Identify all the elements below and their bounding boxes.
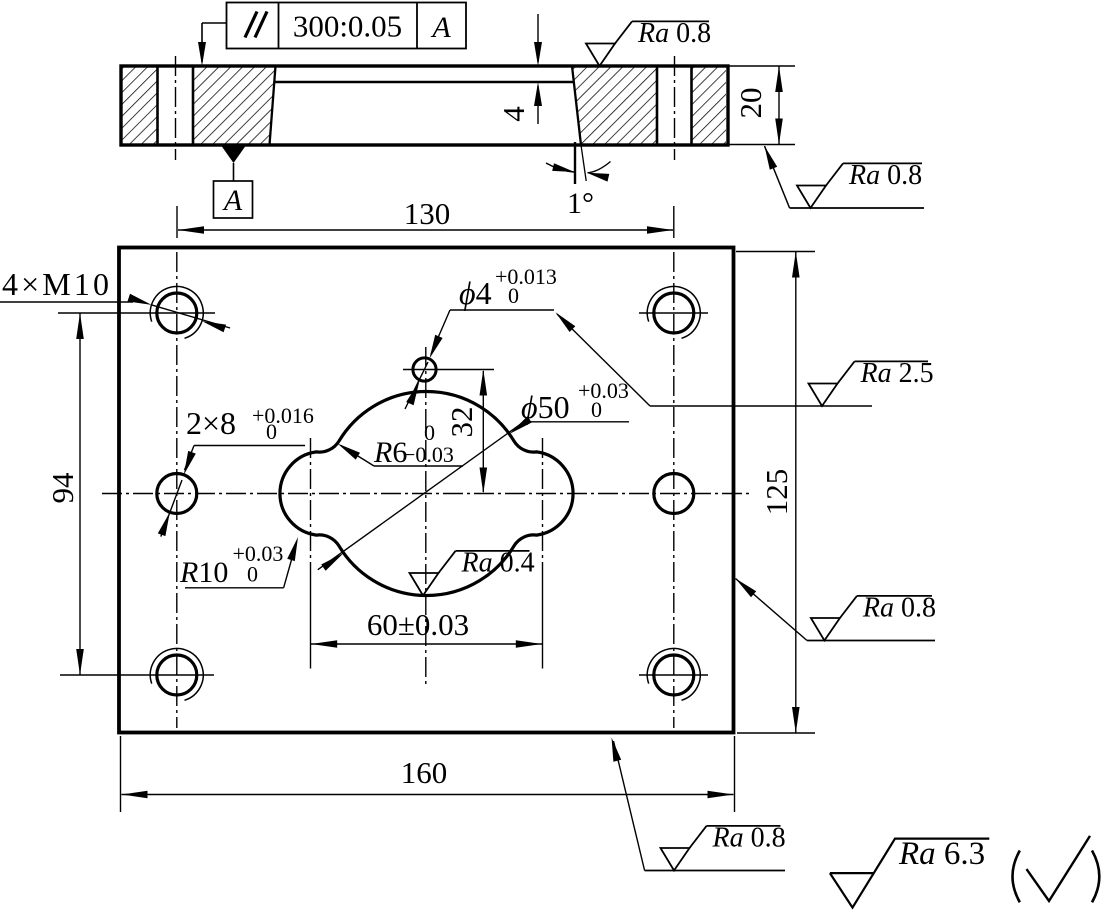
dim 160 extension lines xyxy=(120,736,122,812)
svg-text:0: 0 xyxy=(247,562,258,587)
horizontal main centerline xyxy=(102,493,750,495)
surface finish Ra 0.8 leader (plan right edge) xyxy=(736,579,808,641)
svg-text:160: 160 xyxy=(401,755,448,790)
top-right hole horizontal centerline xyxy=(639,312,708,314)
svg-text:R10: R10 xyxy=(179,556,228,589)
phi4 leader shelf xyxy=(450,309,554,311)
svg-text:Ra 0.8: Ra 0.8 xyxy=(637,18,711,49)
pocket web line (4 mm depth) xyxy=(274,81,573,84)
svg-text:300:0.05: 300:0.05 xyxy=(293,9,402,44)
datum A stem xyxy=(233,163,235,181)
1 deg angle arc arrows xyxy=(546,163,574,172)
surface finish Ra 0.8 leader (plate bottom surface) xyxy=(765,146,790,208)
svg-text:0: 0 xyxy=(591,397,602,422)
hatched section right end block xyxy=(692,66,727,145)
dim 20 line with arrows xyxy=(778,66,780,145)
R10 leader shelf xyxy=(185,587,284,589)
bottom-right hole horizontal centerline xyxy=(639,674,708,676)
svg-text:A: A xyxy=(430,11,451,44)
parenthesis open xyxy=(1013,851,1020,903)
feature control frame leader arrow xyxy=(201,23,203,62)
svg-text:A: A xyxy=(222,184,243,217)
datum A filled triangle xyxy=(222,146,246,163)
surface finish Ra 0.8 symbol (plate bottom) xyxy=(790,207,924,209)
R10 leader with arrow xyxy=(284,542,297,588)
2x8 leader shelf xyxy=(194,445,305,447)
2x8 leader with arrow xyxy=(185,446,195,471)
surface finish Ra 0.8 symbol (plan bottom) xyxy=(645,870,785,872)
datum A box xyxy=(214,181,253,218)
dim 94 line xyxy=(79,313,81,675)
dim 60 line xyxy=(311,643,542,645)
dim phi50 diagonal line xyxy=(318,422,524,570)
2x8 diameter line xyxy=(161,480,182,537)
svg-text:1°: 1° xyxy=(567,187,594,220)
surface finish Ra 2.5 leader xyxy=(557,314,650,406)
svg-text:Ra 0.8: Ra 0.8 xyxy=(848,160,922,191)
svg-text:60±0.03: 60±0.03 xyxy=(367,607,469,642)
svg-text:Ra 0.8: Ra 0.8 xyxy=(862,592,936,623)
svg-text:4: 4 xyxy=(496,106,531,122)
svg-text:0: 0 xyxy=(266,419,277,444)
svg-text:20: 20 xyxy=(733,88,768,119)
svg-text:130: 130 xyxy=(404,196,451,231)
svg-text:0: 0 xyxy=(508,283,519,308)
section view outline xyxy=(121,66,728,145)
svg-text:−0.03: −0.03 xyxy=(403,442,454,467)
tapped hole M10 top-left xyxy=(157,293,197,333)
tapped hole M10 bottom-left xyxy=(157,655,197,695)
svg-text:Ra 0.4: Ra 0.4 xyxy=(461,547,535,578)
R6 leader with arrow xyxy=(341,446,374,467)
svg-text:+0.016: +0.016 xyxy=(252,403,314,428)
svg-text:2×8: 2×8 xyxy=(186,405,236,441)
4xM10 leader shelf xyxy=(0,301,133,303)
1 deg wall extension line xyxy=(581,145,586,181)
pocket left wall (1 deg draft) xyxy=(270,66,276,145)
svg-text:ϕ50: ϕ50 xyxy=(521,389,570,425)
vertical centerline left hole column xyxy=(176,252,178,728)
dim 60 extension lines xyxy=(310,580,312,669)
phi4 leader with arrow xyxy=(431,310,450,354)
surface finish Ra 0.4 symbol xyxy=(410,573,439,596)
surface finish Ra 0.8 leader (plan bottom edge) xyxy=(614,741,645,871)
plan view outline xyxy=(119,248,734,733)
1 deg vertical reference line xyxy=(574,142,576,184)
hatched section left end block xyxy=(121,66,158,145)
dim 4 lower arrow xyxy=(537,86,539,124)
dim 20 extension lines xyxy=(728,65,795,67)
R6 leader shelf xyxy=(374,465,463,467)
dim 4 upper arrow xyxy=(537,14,539,62)
svg-text:+0.013: +0.013 xyxy=(495,264,557,289)
dim phi50 arrows xyxy=(509,416,532,434)
pocket right wall (1 deg draft) xyxy=(572,66,581,145)
svg-text:Ra 2.5: Ra 2.5 xyxy=(860,358,934,389)
vertical main centerline xyxy=(425,347,427,684)
parallelism symbol // xyxy=(245,12,257,38)
feature control frame box xyxy=(227,3,467,49)
dim 130 extension lines xyxy=(176,206,178,238)
surface finish Ra 0.8 (top surface) xyxy=(586,44,615,67)
svg-text:ϕ4: ϕ4 xyxy=(459,275,492,311)
check mark in parentheses xyxy=(1027,836,1091,901)
parenthesis close xyxy=(1092,851,1099,903)
dim phi50 shelf xyxy=(524,421,629,423)
svg-text:32: 32 xyxy=(444,407,479,438)
surface finish Ra 0.8 symbol (plan right edge) xyxy=(807,640,935,642)
dim 125 line xyxy=(795,252,797,734)
phi4 diameter line xyxy=(405,362,428,409)
4xM10 diameter dimension across thread circle xyxy=(152,305,231,328)
dim 160 line xyxy=(122,794,734,796)
svg-text:94: 94 xyxy=(45,472,80,504)
clover-shaped cutout (phi50 with R10 lobes and R6 fillets) xyxy=(280,391,573,595)
general surface finish Ra 6.3 symbol xyxy=(830,839,989,908)
section left hole centerline xyxy=(175,56,177,160)
dim 125 extension lines xyxy=(736,251,815,253)
svg-text:+0.03: +0.03 xyxy=(578,378,629,403)
svg-text:4×M10: 4×M10 xyxy=(2,266,109,302)
surface finish Ra 2.5 symbol xyxy=(809,384,838,407)
section hole wall lines (left M10 hole) xyxy=(156,66,159,145)
vertical centerline right hole column xyxy=(673,252,675,728)
dim 32 line xyxy=(482,371,484,492)
dim 94 extension lines xyxy=(58,312,215,314)
hole 8 right xyxy=(654,474,694,514)
dim 130 line xyxy=(178,229,673,231)
left lobe centerline xyxy=(310,438,312,580)
tapped hole M10 top-right xyxy=(654,293,694,333)
phi4 hole horizontal centerline / 32 extension xyxy=(403,369,494,371)
hole phi4 xyxy=(413,358,436,381)
svg-text:Ra 0.8: Ra 0.8 xyxy=(712,822,786,853)
svg-text:Ra 6.3: Ra 6.3 xyxy=(898,836,985,872)
hatched section left inner block (tapered pocket wall) xyxy=(193,66,276,145)
right lobe centerline xyxy=(542,438,544,580)
svg-text:125: 125 xyxy=(759,469,794,516)
section right hole centerline xyxy=(674,56,676,160)
tapped hole M10 bottom-right xyxy=(654,655,694,695)
hole 8 left xyxy=(157,474,197,514)
hatched section right inner block (tapered pocket wall) xyxy=(572,66,657,145)
section hole wall lines (right M10 hole) xyxy=(656,66,659,145)
